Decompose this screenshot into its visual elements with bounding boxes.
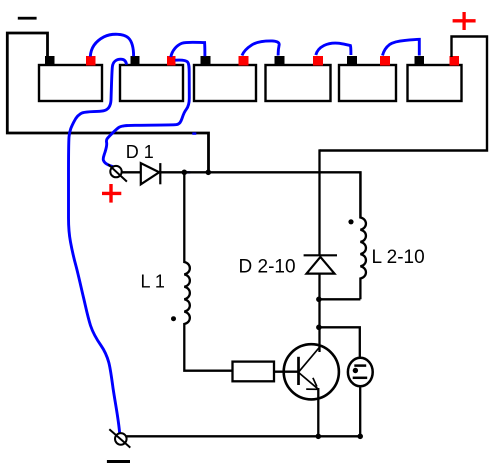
blue jumper arc BT3+ to BT4- — [242, 41, 279, 56]
BT5 positive terminal — [380, 56, 390, 66]
phase dot of L2-10 — [348, 219, 353, 224]
diode D2-10 (freewheel, pointing up) — [304, 255, 337, 273]
wire: R1 to Q1 base — [274, 371, 298, 373]
output terminal (negative) — [109, 429, 130, 447]
inductor L2-10 (vertical with right-side humps) — [360, 172, 366, 299]
blue jumper arc BT2+ to BT3- — [171, 42, 205, 57]
wire: D2-10 anode down to Q1 collector — [318, 274, 320, 352]
transistor Q1 (NPN) — [284, 344, 339, 399]
BT2 negative terminal — [131, 56, 140, 66]
blue paint remnant on negative bus wire — [192, 132, 196, 134]
junction node D2/L2 bottom — [316, 297, 322, 303]
wire: BT6 positive terminal up and right edge down to collector rail — [320, 37, 488, 151]
indicator lamp HL1 (circle with plates) — [348, 358, 373, 387]
wire: BT1 negative terminal up, left and down the left edge to lower bus — [7, 33, 208, 171]
collector rail from battery + down to D2-10 cathode — [318, 149, 320, 256]
battery BT5 — [339, 65, 396, 101]
battery BT2 — [120, 65, 183, 101]
BT2 positive terminal — [167, 56, 176, 66]
BT3 positive terminal — [239, 56, 249, 66]
input terminal (connector to battery +) — [108, 164, 127, 181]
svg-text:D 1: D 1 — [126, 142, 154, 162]
junction node indicator/bus — [357, 434, 363, 440]
junction node at L1 tap — [182, 170, 188, 176]
ground bus wire — [127, 435, 361, 437]
blue paint remnant on D1 output wire — [186, 171, 191, 173]
blue jumper arc BT5+ to BT6- — [383, 39, 420, 55]
BT1 positive terminal — [86, 56, 96, 66]
BT3 negative terminal — [201, 56, 211, 66]
blue wire from BT2 positive terminal down between batteries to D1 input terminal — [103, 60, 189, 167]
battery BT3 — [194, 65, 256, 101]
battery BT6 — [408, 65, 462, 101]
inductor L1 (vertical with right-side humps) — [184, 171, 232, 371]
BT4 positive terminal — [313, 56, 323, 66]
resistor R1 (base resistor) — [233, 362, 275, 382]
diode D1 — [141, 163, 161, 184]
BT1 negative terminal — [45, 56, 55, 66]
wire: Q1 emitter down to ground bus — [317, 388, 319, 436]
battery BT1 — [39, 65, 102, 101]
BT4 negative terminal — [275, 56, 285, 66]
wire: D1 cathode to L2-10 top corner — [160, 172, 360, 218]
BT6 positive terminal — [450, 56, 460, 66]
junction node emitter/bus — [316, 434, 322, 440]
wire: L2-10 bottom to collector rail — [319, 298, 361, 300]
plus sign top-right (battery bank positive, red) — [453, 12, 476, 30]
battery BT4 — [266, 65, 331, 101]
BT6 negative terminal — [415, 56, 425, 66]
phase dot of L1 — [171, 316, 176, 321]
minus sign top-left (battery bank negative) — [18, 17, 37, 20]
red plus mark at input terminal — [102, 184, 121, 203]
blue wire from BT2 negative terminal down to bottom output terminal — [69, 59, 127, 432]
junction node at negative bus tap — [206, 170, 212, 176]
svg-text:L 1: L 1 — [141, 271, 165, 291]
wire: collector rail tap to indicator top — [319, 327, 360, 358]
BT5 negative terminal — [347, 56, 357, 66]
wire: indicator bottom to ground bus — [359, 386, 361, 436]
minus sign below output terminal — [107, 460, 130, 463]
wire: terminal to D1 anode — [122, 171, 141, 173]
svg-text:D 2-10: D 2-10 — [239, 257, 296, 278]
indicator polarity dot — [353, 368, 358, 373]
svg-text:L 2-10: L 2-10 — [372, 247, 425, 268]
blue jumper arc BT4+ to BT5- — [316, 43, 351, 55]
junction node indicator tap — [316, 325, 322, 331]
blue jumper arc BT1+ to BT2- — [90, 34, 133, 56]
